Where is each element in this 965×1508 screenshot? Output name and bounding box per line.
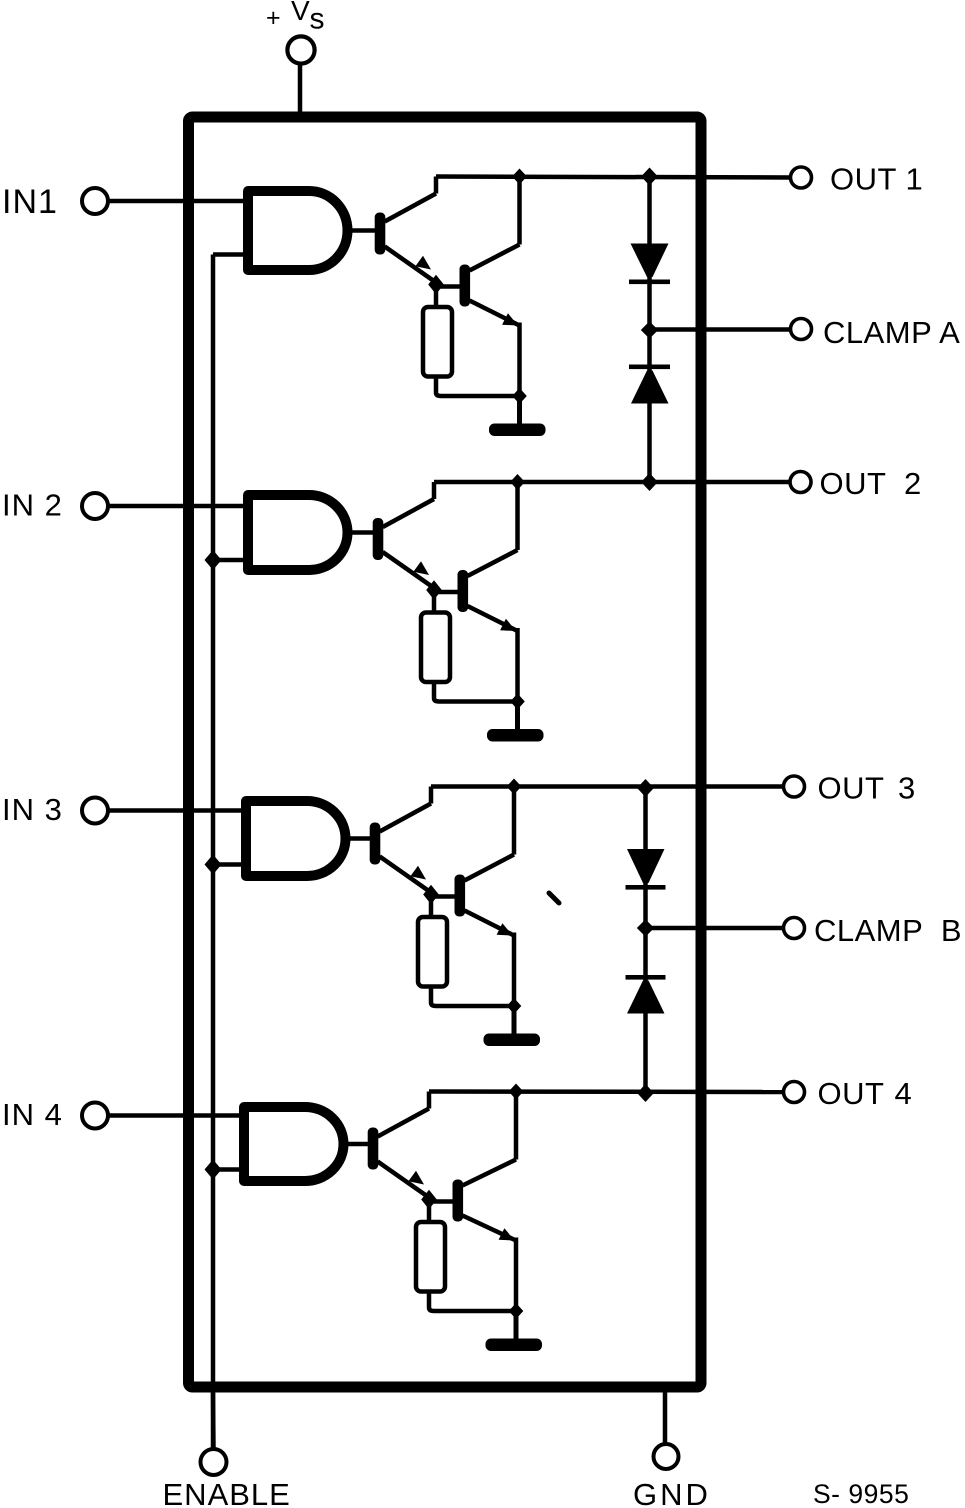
wire ENABLE to gate A2 <box>213 558 251 563</box>
terminal IN4 <box>82 1103 108 1129</box>
junction Q2B collector on rail <box>510 474 525 490</box>
node Q2B base junction <box>426 580 442 600</box>
svg-text:V: V <box>291 0 310 26</box>
transistor Q3B <box>455 855 515 936</box>
transistor Q1B <box>460 245 520 326</box>
wire GND lead <box>663 1392 668 1444</box>
svg-text:s: s <box>310 3 325 36</box>
svg-text:+: + <box>266 4 281 32</box>
transistor Q1A <box>375 194 436 283</box>
wire clamp diode string A <box>647 177 652 483</box>
wire Q3B collector to OUT3 rail <box>512 787 517 855</box>
diode D4 (OUT4 to CLAMP B) <box>626 975 666 1014</box>
resistor R4 <box>416 1222 445 1292</box>
svg-text:OUT 1: OUT 1 <box>830 162 923 197</box>
wire resistor R3 to ground node <box>431 987 514 1007</box>
resistor R3 <box>418 917 447 987</box>
svg-text:IN 3: IN 3 <box>2 792 63 827</box>
transistor Q2B <box>458 550 518 631</box>
junction ENABLE node channel 2 <box>205 550 222 570</box>
junction ENABLE node channel 4 <box>205 1160 222 1180</box>
wire ENABLE lead <box>211 1392 216 1449</box>
svg-text:S- 9955: S- 9955 <box>813 1479 909 1508</box>
wire clamp diode string B <box>643 788 648 1092</box>
wire OUT 4 rail <box>429 1089 784 1094</box>
ground channel 1 <box>489 396 546 436</box>
AND gate A3 <box>246 801 346 876</box>
junction diode tap on OUT 3 rail <box>637 779 654 797</box>
terminal OUT 2 <box>790 472 811 493</box>
terminal OUT 3 <box>784 776 805 797</box>
junction Q1B collector on rail <box>512 169 527 185</box>
junction ground node channel 2 <box>510 694 525 710</box>
wire CLAMP A <box>650 327 791 332</box>
wire Q1B base to resistor R1 <box>434 289 439 308</box>
wire node to Q3B base <box>431 894 456 899</box>
wire +Vs to box top <box>298 63 303 117</box>
junction CLAMP A node <box>641 321 658 338</box>
wire IN1 to gate A1 <box>108 199 251 204</box>
wire IN2 to gate A2 <box>108 504 251 509</box>
wire ENABLE to gate A1 <box>213 252 251 257</box>
diode D3 (OUT3 to CLAMP B) <box>626 849 666 890</box>
wire Q3B emitter to ground node <box>512 933 517 1006</box>
wire node to Q2B base <box>434 590 459 595</box>
wire gate A3 output to Q3A base <box>344 836 371 841</box>
node Q4B base junction <box>421 1190 437 1210</box>
wire ENABLE to gate A4 <box>213 1167 247 1172</box>
wire node to Q4B base <box>429 1199 454 1204</box>
ground channel 4 <box>486 1311 543 1351</box>
wire ENABLE vertical bus <box>211 255 216 1449</box>
AND gate A2 <box>248 495 348 570</box>
AND gate A4 <box>244 1107 344 1181</box>
terminal IN3 <box>82 798 108 824</box>
wire Q2B base to resistor R2 <box>432 594 437 613</box>
ground channel 2 <box>487 702 544 742</box>
junction ground node channel 1 <box>512 388 527 404</box>
wire gate A1 output to Q1A base <box>346 228 376 233</box>
wire OUT 2 rail <box>434 480 790 485</box>
transistor Q4A <box>368 1109 429 1198</box>
wire OUT 1 rail <box>436 177 791 178</box>
wire Q1A collector to OUT1 rail <box>434 177 439 194</box>
svg-text:IN 4: IN 4 <box>2 1097 63 1132</box>
junction ENABLE node channel 3 <box>205 855 222 875</box>
wire CLAMP B <box>646 926 784 931</box>
diode D2 (OUT2 to CLAMP A) <box>629 365 670 404</box>
wire Q4B emitter to ground node <box>514 1238 519 1311</box>
AND gate A1 <box>248 191 348 270</box>
junction Q3B collector on rail <box>507 779 522 795</box>
wire Q2A collector to OUT2 rail <box>432 482 437 499</box>
svg-text:CLAMP A: CLAMP A <box>823 315 960 350</box>
wire Q1B emitter to ground node <box>517 323 522 396</box>
wire Q4B collector to OUT4 rail <box>514 1092 519 1160</box>
wire Q2B emitter to ground node <box>515 628 520 701</box>
svg-text:ENABLE: ENABLE <box>163 1477 291 1508</box>
junction Q4B collector on rail <box>509 1084 524 1100</box>
terminal +Vs <box>287 36 314 63</box>
wire Q3A collector to OUT3 rail <box>429 787 434 804</box>
svg-text:OUT 2: OUT 2 <box>820 466 922 501</box>
svg-text:IN 2: IN 2 <box>2 488 63 523</box>
diode D1 (OUT1 to CLAMP A) <box>629 244 670 285</box>
node Q1B base junction <box>428 275 444 295</box>
wire Q3B base to resistor R3 <box>429 899 434 918</box>
svg-text:OUT 4: OUT 4 <box>818 1076 913 1111</box>
terminal IN1 <box>82 188 108 214</box>
wire Q4A collector to OUT4 rail <box>427 1092 432 1109</box>
transistor Q4B <box>453 1160 517 1241</box>
junction diode tap on OUT 2 rail <box>641 473 658 491</box>
wire gate A2 output to Q2A base <box>346 530 374 535</box>
wire ENABLE to gate A3 <box>213 862 249 867</box>
wire resistor R4 to ground node <box>429 1292 516 1312</box>
terminal IN2 <box>82 493 108 519</box>
junction ground node channel 3 <box>507 998 522 1014</box>
wire Q1B collector to OUT1 rail <box>517 177 522 245</box>
terminal GND <box>654 1444 679 1469</box>
terminal CLAMP A <box>791 319 812 340</box>
terminal OUT 1 <box>791 167 812 188</box>
wire resistor R1 to ground node <box>436 377 520 397</box>
terminal ENABLE <box>201 1449 227 1475</box>
wire node to Q1B base <box>436 284 461 289</box>
terminal OUT 4 <box>784 1082 805 1103</box>
junction ground node channel 4 <box>509 1303 524 1319</box>
resistor R2 <box>421 613 450 683</box>
junction diode tap on OUT 1 rail <box>641 168 658 186</box>
wire IN3 to gate A3 <box>108 808 249 813</box>
svg-text:IN1: IN1 <box>2 183 58 221</box>
terminal CLAMP B <box>784 918 805 939</box>
resistor R1 <box>423 307 452 377</box>
wire OUT 3 rail <box>431 784 784 789</box>
junction diode tap on OUT 4 rail <box>637 1084 654 1102</box>
svg-text:CLAMP B: CLAMP B <box>814 913 962 948</box>
node Q3B base junction <box>423 885 439 905</box>
wire resistor R2 to ground node <box>434 682 518 702</box>
svg-text:OUT 3: OUT 3 <box>818 771 916 806</box>
wire IN4 to gate A4 <box>108 1113 247 1118</box>
ground channel 3 <box>484 1006 541 1046</box>
wire Q2B collector to OUT2 rail <box>515 482 520 550</box>
wire gate A4 output to Q4A base <box>342 1142 369 1147</box>
junction CLAMP B node <box>637 919 654 936</box>
IC outline box <box>189 117 702 1387</box>
transistor Q3A <box>370 804 431 893</box>
wire Q4B base to resistor R4 <box>427 1204 432 1223</box>
transistor Q2A <box>373 499 434 588</box>
stray mark <box>549 893 559 903</box>
svg-text:GND: GND <box>633 1477 711 1508</box>
